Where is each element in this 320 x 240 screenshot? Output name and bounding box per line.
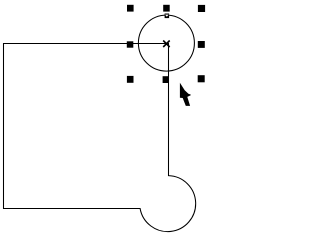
- handle top-middle: [163, 5, 170, 12]
- selection center X marker: [163, 41, 170, 48]
- handle bottom-right: [198, 75, 205, 82]
- handle top-left: [127, 5, 134, 12]
- selected circle: [138, 15, 194, 71]
- mouse cursor arrow: [180, 83, 191, 106]
- ellipse node glyph at circle top: [165, 14, 170, 19]
- handle middle-left: [127, 41, 134, 47]
- handle bottom-left: [127, 76, 134, 83]
- welded rectangle+circle outline: [4, 44, 196, 232]
- handle bottom-middle: [163, 76, 169, 83]
- handle top-right: [198, 5, 205, 12]
- handle middle-right: [198, 41, 205, 48]
